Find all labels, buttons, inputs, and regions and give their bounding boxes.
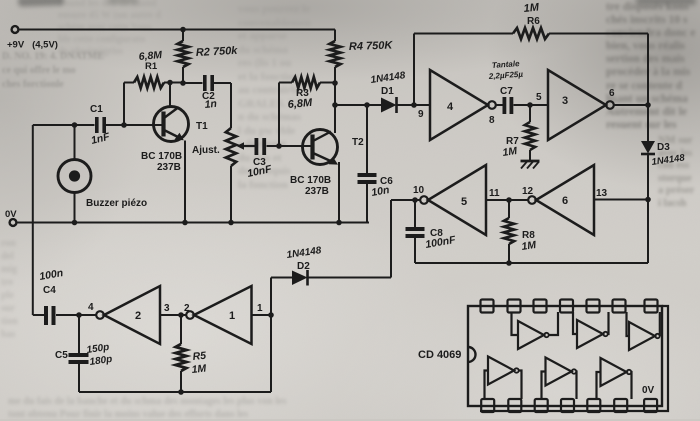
wire C6 bottom lead [366,184,368,223]
capacitor C3 [255,138,267,155]
node pin1 junction [268,312,274,318]
wire R3 left lead [279,82,292,84]
terminal +9V [12,26,19,33]
svg-text:6,8M: 6,8M [287,97,313,111]
svg-text:1: 1 [257,303,263,314]
IC wire A out [549,312,558,335]
resistor R4 [330,41,341,67]
capacitor C7 [503,97,514,114]
svg-text:13: 13 [596,188,608,199]
node T2 emitter on 0V rail [336,220,342,226]
resistor R8 [504,218,514,244]
wire T2 emitter lead [338,162,340,223]
svg-text:5: 5 [461,196,467,208]
wire 0V rail [17,222,369,224]
wire R5 bottom lead [180,371,182,392]
bleed-through left margin text [2,50,104,92]
svg-text:2: 2 [135,310,141,322]
svg-text:R5: R5 [192,350,207,363]
resistor R5 [176,344,187,371]
wire inverter3 out [614,104,648,106]
wire pin1 row [252,314,272,316]
IC wire F in [597,372,601,399]
svg-text:C7: C7 [500,86,513,97]
svg-text:C4: C4 [43,285,56,296]
wire C7 to inverter 3 [514,104,549,106]
svg-text:D2: D2 [297,261,310,272]
svg-text:D3: D3 [657,142,670,153]
node R3 R4 [332,80,338,86]
node potentiometer on 0V rail [228,220,234,226]
svg-text:237B: 237B [305,186,329,197]
svg-text:1n: 1n [204,98,217,111]
wire bottom feedback [79,391,271,393]
wire C5 top lead [78,315,80,353]
diode D1 [381,97,397,113]
wire rail corner to C6 [367,222,369,224]
node R8 top [506,197,512,203]
wire R1 right lead [164,82,183,84]
node right column pin6 [645,102,651,108]
wire pin13 row [594,199,648,201]
svg-text:BC 170B: BC 170B [290,175,331,186]
op-amp U1 inverter 1 [186,286,251,344]
node C6 branch [364,102,370,108]
IC wire D out [519,371,522,400]
wire pin10 down column [390,200,392,278]
buzzer piezo [58,160,91,193]
IC inverter F [601,358,632,386]
node base column [121,122,127,128]
diode D2 [292,270,308,286]
op-amp U1 inverter 4 [430,70,496,140]
IC inverter B [577,320,608,348]
wire buzzer top lead [74,125,76,160]
wire pin4 stub [79,314,96,316]
op-amp U1 inverter 6 [528,165,594,235]
wire R2 top lead [182,30,184,42]
node C8 branch [412,197,418,203]
node pin13 on right column [645,197,651,203]
IC wire B in [573,312,577,334]
svg-text:Ajust.: Ajust. [192,145,220,156]
wire R3 left column [278,83,280,147]
wire buzzer bottom lead [74,193,76,223]
svg-text:BC 170B: BC 170B [141,151,182,162]
svg-text:4: 4 [88,302,94,313]
wire C2 left [183,82,203,84]
bleed-through bottom strip text [8,396,286,421]
svg-text:R2 750k: R2 750k [196,45,239,59]
wire C6 top lead [366,105,368,173]
IC wire E out [575,372,578,400]
svg-text:5: 5 [536,92,542,103]
node pin9 feedback [411,102,417,108]
svg-text:C5: C5 [55,350,68,361]
wire D2 anode [271,277,292,279]
svg-text:3: 3 [562,95,568,107]
bleed-through far right lower column [658,135,694,210]
wire T2 collector lead [334,105,336,133]
IC inverter C [629,322,660,350]
wire bottom rail [415,262,648,264]
wire T1 emitter lead [184,141,186,223]
svg-text:8: 8 [489,115,495,126]
wire D1 to inverter 4 [398,104,431,106]
diode D3 [641,141,655,154]
wire R4 bottom lead [334,67,336,83]
svg-text:R1: R1 [145,61,158,72]
svg-text:10: 10 [413,185,425,196]
ground of R7 [521,161,540,169]
wire C3 to T2 base [267,145,313,147]
wire potentiometer bottom [230,166,232,223]
wire R2 bottom lead [182,67,184,83]
svg-text:1: 1 [229,310,235,322]
svg-text:R4 750K: R4 750K [349,39,394,53]
svg-text:0V: 0V [642,385,655,396]
wire R7 top lead [529,105,531,122]
svg-text:0V: 0V [5,209,17,220]
potentiometer Ajust [226,128,236,166]
svg-text:R6: R6 [527,16,540,27]
svg-text:237B: 237B [157,162,181,173]
wire right column mid [647,154,649,263]
svg-text:9: 9 [418,109,424,120]
node R1 R2 C2 [180,80,186,86]
capacitor C5 [69,353,89,364]
wire R1 left lead [124,82,134,84]
transistor T1 [154,107,189,142]
IC wire C out [659,312,661,336]
potentiometer wiper arrow [237,142,255,150]
wire R1 to base column [123,83,125,126]
wire collector node to D1 [335,104,381,106]
node T1 emitter on 0V rail [182,220,188,226]
wire C1 to T1 base [106,124,163,126]
svg-text:1M: 1M [502,145,518,159]
transistor T2 [303,130,339,165]
wire R5 top lead [180,315,182,344]
node buzzer top [72,122,78,128]
svg-text:CD 4069: CD 4069 [418,349,461,361]
paper grain [0,0,1,1]
wire left feedback column [32,125,34,315]
capacitor C6 [358,173,377,184]
svg-text:T2: T2 [352,137,364,148]
wire C8 top lead [414,200,416,227]
node R7 top [527,102,533,108]
svg-text:C1: C1 [90,104,103,115]
resistor R6 [513,28,549,39]
resistor R2 [178,41,189,67]
IC inverter D [488,357,519,385]
svg-text:1M: 1M [191,362,207,375]
wire D2 cathode to column [309,277,392,279]
node R3 column on base wire [276,143,282,149]
node C5 branch [76,312,82,318]
wire C2 to potentiometer [230,83,232,128]
wire inverter1 to inverter2 [160,314,186,316]
wire R6 top right [549,33,648,35]
bleed-through middle text column [238,3,311,192]
wire T1 collector lead [169,83,171,109]
capacitor C1 [95,117,106,133]
IC inverter A [518,321,549,349]
wire C8 bottom lead [414,238,416,263]
node T1 collector on R1 row [167,80,173,86]
svg-text:3: 3 [164,303,170,314]
node buzzer on 0V rail [72,220,78,226]
resistor R7 [525,122,535,150]
wire R4 to collector node [334,83,336,105]
IC top pins [481,300,658,313]
wire C2 right [214,82,231,84]
wire base row left [33,124,95,126]
terminal 0V [10,219,17,226]
wire C5 bottom lead [78,364,80,392]
node R5 top [178,312,184,318]
wire R6 top left [414,33,513,35]
op-amp U1 inverter 2 [96,286,160,344]
wire D2 column down [270,278,272,393]
IC wire A in [512,312,519,335]
op-amp U1 inverter 5 [420,165,486,235]
svg-text:2: 2 [184,303,190,314]
svg-text:+9V (4,5V): +9V (4,5V) [7,40,58,51]
IC wire C in [627,312,630,336]
wire right column top [647,34,649,142]
svg-text:1M: 1M [523,1,540,15]
IC bottom pins [481,399,657,412]
wire R8 top lead [508,200,510,218]
wire pin10 stub [391,199,420,201]
resistor R3 [292,77,320,88]
scan smudges [18,0,64,7]
svg-text:6: 6 [609,88,615,99]
node top rail / R2 [180,27,186,33]
node R8 on bottom rail [506,260,512,266]
bleed-through top-left text [58,0,161,58]
wire C4 to pin4 [56,314,79,316]
svg-text:11: 11 [489,188,500,199]
node R5 on bottom wire [178,389,184,395]
bleed-through right text column [606,1,695,132]
op-amp U1 inverter 3 [548,70,614,140]
svg-text:T1: T1 [196,121,208,132]
wire inverter6 to inverter5 [486,199,528,201]
svg-text:1M: 1M [521,239,537,253]
capacitor C8 [406,227,425,238]
IC wire D in [485,371,489,400]
IC wire F out [630,372,633,399]
wire R8 bottom lead [508,244,510,263]
wire R3 right lead [320,82,335,84]
capacitor C2 [203,75,214,91]
wire left column to C4 [33,314,45,316]
svg-text:6: 6 [562,195,568,207]
wire R7 bottom lead [529,150,531,161]
svg-text:4: 4 [447,101,454,113]
capacitor C4 [44,306,56,325]
wire R6 down column [413,34,415,106]
node T2 collector branch [332,102,338,108]
IC wire B out [607,312,610,334]
wire inverter4 out to C7 [496,104,504,106]
svg-text:12: 12 [522,186,534,197]
IC CD4069 body [468,306,668,411]
wire R4 top lead [334,30,336,42]
bleed-through left mid text [1,237,18,341]
resistor R1 [134,77,164,88]
IC inverter E [546,358,577,386]
IC wire E in [542,372,546,400]
svg-text:D1: D1 [381,86,394,97]
wire top +9V rail [19,29,335,31]
svg-text:Buzzer piézo: Buzzer piézo [86,198,147,209]
